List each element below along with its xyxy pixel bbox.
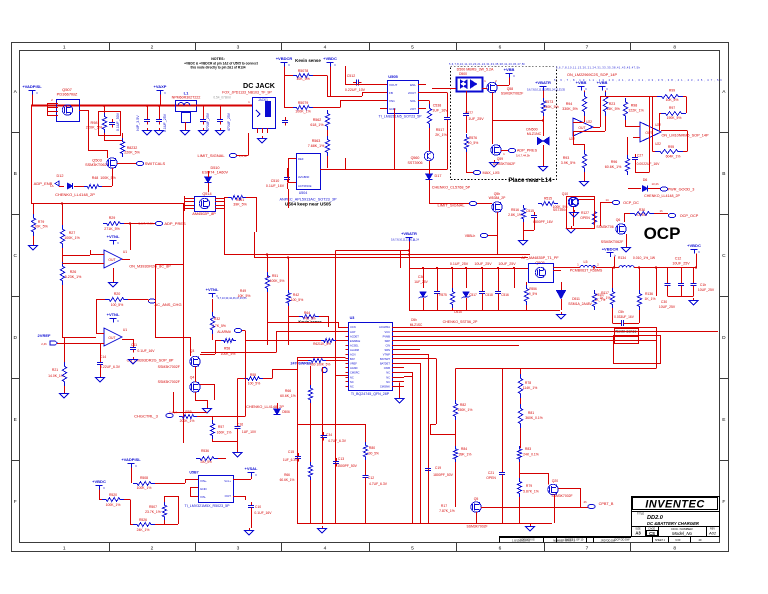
svg-text:1500PF_50V: 1500PF_50V — [337, 464, 358, 468]
svg-text:R127: R127 — [581, 211, 589, 215]
svg-text:7: 7 — [586, 44, 589, 50]
svg-text:ADP_ENB: ADP_ENB — [34, 181, 53, 186]
svg-text:Place near L14: Place near L14 — [508, 177, 552, 184]
svg-text:1,2,3h: 1,2,3h — [239, 154, 248, 158]
svg-text:4.7UF_6.3V: 4.7UF_6.3V — [369, 482, 388, 486]
svg-text:SST3906: SST3906 — [408, 161, 423, 165]
svg-text:R20: R20 — [114, 292, 121, 296]
svg-text:OCP_OCP: OCP_OCP — [680, 214, 699, 218]
svg-text:R32: R32 — [214, 317, 220, 321]
svg-text:R96: R96 — [611, 160, 618, 164]
svg-text:5.87K_1%: 5.87K_1% — [523, 490, 539, 494]
svg-text:OPEN: OPEN — [580, 216, 590, 220]
svg-text:604K_1%: 604K_1% — [666, 155, 681, 159]
svg-text:LIMIT_SIGNAL: LIMIT_SIGNAL — [197, 153, 225, 158]
svg-text:F: F — [14, 499, 17, 505]
svg-text:3.9K_5%: 3.9K_5% — [561, 161, 576, 165]
svg-text:ACN: ACN — [350, 353, 356, 357]
svg-text:this node directly to pin 2&1: this node directly to pin 2&1 of R134 — [190, 66, 245, 70]
svg-text:D500: D500 — [459, 72, 467, 76]
svg-text:0.1UF_16V: 0.1UF_16V — [137, 349, 155, 353]
svg-text:0.1UF_25V: 0.1UF_25V — [163, 113, 167, 132]
svg-text:5,6,7,8,10,11,13,20,21,24,31,3: 5,6,7,8,10,11,13,20,21,24,31,33,35,38,41… — [556, 66, 641, 70]
svg-text:NC_5%: NC_5% — [305, 317, 316, 321]
svg-text:W5384_2P: W5384_2P — [489, 196, 507, 200]
svg-text:BATDET: BATDET — [380, 362, 390, 366]
svg-text:100K_5%: 100K_5% — [270, 279, 285, 283]
svg-text:ADP_PRES: ADP_PRES — [517, 149, 538, 153]
svg-text:Q20: Q20 — [552, 479, 559, 483]
svg-text:470UF_25V: 470UF_25V — [206, 112, 210, 131]
svg-text:0.1UF_25V: 0.1UF_25V — [450, 262, 469, 266]
svg-text:2: 2 — [151, 545, 154, 551]
svg-text:OPEN: OPEN — [486, 476, 496, 480]
svg-text:160K_1%: 160K_1% — [217, 431, 232, 435]
svg-text:E: E — [722, 417, 725, 423]
svg-text:OUT: OUT — [645, 131, 652, 135]
svg-text:R29: R29 — [109, 216, 116, 220]
svg-text:10_5%: 10_5% — [468, 141, 479, 145]
svg-text:5,6,7,8,10,11,13,20,21,24: 5,6,7,8,10,11,13,20,21,24 — [391, 238, 420, 242]
svg-text:ENL: ENL — [410, 83, 416, 87]
svg-text:LIMIT_SIGNAL: LIMIT_SIGNAL — [437, 203, 465, 208]
svg-text:5,6,7,44,5h: 5,6,7,44,5h — [516, 154, 530, 158]
svg-text:NPM60R302T222: NPM60R302T222 — [172, 96, 201, 100]
svg-text:C27: C27 — [637, 154, 643, 158]
svg-text:1: 1 — [63, 545, 66, 551]
svg-text:SRN: SRN — [385, 348, 391, 352]
svg-text:CHENKO_LL4148_2P: CHENKO_LL4148_2P — [246, 405, 284, 409]
svg-text:220K_5%: 220K_5% — [124, 151, 140, 155]
svg-text:0.0022UF_16V: 0.0022UF_16V — [637, 162, 661, 166]
svg-text:+VADPISL: +VADPISL — [121, 457, 141, 462]
svg-text:2OT: 2OT — [410, 107, 416, 111]
svg-text:Q6: Q6 — [616, 218, 621, 222]
svg-text:+VBATR: +VBATR — [535, 80, 551, 85]
svg-text:60.6K_1%: 60.6K_1% — [605, 165, 622, 169]
svg-text:ACGPRA: ACGPRA — [379, 325, 390, 329]
svg-text:R576: R576 — [469, 136, 477, 140]
svg-text:MAX_LX5: MAX_LX5 — [482, 171, 499, 175]
svg-text:CS: CS — [649, 531, 655, 536]
svg-text:R79: R79 — [38, 220, 45, 224]
svg-text:U505: U505 — [388, 74, 398, 79]
svg-text:ACSEL: ACSEL — [350, 343, 359, 347]
svg-text:+VBDCR: +VBDCR — [276, 56, 293, 61]
svg-text:PVMB: PVMB — [383, 334, 391, 338]
svg-text:2,4h: 2,4h — [41, 342, 47, 346]
svg-text:CIN: CIN — [386, 343, 391, 347]
svg-text:R51: R51 — [272, 274, 278, 278]
svg-text:SSM3K7002F: SSM3K7002F — [158, 365, 181, 369]
svg-text:Q59: Q59 — [497, 157, 504, 161]
svg-text:R57: R57 — [218, 425, 224, 429]
svg-text:0.22UF_6.3V: 0.22UF_6.3V — [100, 365, 121, 369]
svg-text:DC &BATTERY CHARGER: DC &BATTERY CHARGER — [647, 521, 699, 526]
svg-text:R99: R99 — [669, 89, 675, 93]
svg-text:PWR_GOOD_3: PWR_GOOD_3 — [668, 188, 695, 192]
svg-text:24K_1%: 24K_1% — [137, 528, 150, 532]
svg-text:INVENTEC: INVENTEC — [645, 499, 705, 511]
svg-text:D: D — [722, 335, 726, 341]
svg-text:SSM3KT062F: SSM3KT062F — [601, 240, 624, 244]
svg-text:NOTES:: NOTES: — [211, 57, 225, 61]
svg-text:+VADPISL: +VADPISL — [22, 84, 42, 89]
svg-text:VCC: VCC — [385, 330, 391, 334]
svg-text:+VTNL: +VTNL — [206, 287, 219, 292]
svg-text:U1: U1 — [123, 250, 127, 254]
svg-text:U504 keep near U505: U504 keep near U505 — [285, 202, 331, 207]
svg-text:1K_1%: 1K_1% — [645, 297, 656, 301]
svg-text:R17: R17 — [441, 504, 447, 508]
svg-text:OCP_DC: OCP_DC — [623, 201, 639, 205]
svg-text:100K_5%: 100K_5% — [221, 352, 236, 356]
svg-text:5: 5 — [411, 545, 414, 551]
svg-text:ACP: ACP — [350, 330, 356, 334]
svg-text:VTMP: VTMP — [383, 353, 390, 357]
svg-text:190K_5%: 190K_5% — [667, 116, 682, 120]
svg-text:2VREF: 2VREF — [38, 333, 51, 338]
svg-text:TI_BQ24745_QFN_28P: TI_BQ24745_QFN_28P — [351, 392, 390, 396]
svg-text:CHENKO_LL4148_2P: CHENKO_LL4148_2P — [644, 194, 680, 198]
svg-text:470UF_25V: 470UF_25V — [227, 112, 231, 131]
svg-text:R134: R134 — [618, 256, 626, 260]
svg-text:Q58: Q58 — [507, 87, 514, 91]
svg-text:MLZ1SC: MLZ1SC — [410, 323, 423, 327]
svg-text:14.0K_1%: 14.0K_1% — [48, 374, 64, 378]
svg-text:0.22UF_10V: 0.22UF_10V — [345, 88, 366, 92]
svg-text:100_5%: 100_5% — [248, 382, 260, 386]
svg-text:4: 4 — [324, 44, 327, 50]
svg-text:F: F — [722, 499, 725, 505]
svg-text:200K_1%: 200K_1% — [180, 419, 195, 423]
svg-text:100K_1%: 100K_1% — [137, 486, 152, 490]
svg-text:R30: R30 — [639, 208, 645, 212]
svg-text:AP_AM4835P_T1_PF: AP_AM4835P_T1_PF — [521, 256, 559, 260]
svg-text:GND: GND — [389, 107, 397, 111]
svg-text:D506: D506 — [282, 410, 290, 414]
svg-text:Q5: Q5 — [474, 497, 479, 501]
svg-text:24K_0.1%: 24K_0.1% — [523, 453, 539, 457]
svg-text:39K_1%: 39K_1% — [459, 453, 472, 457]
svg-text:GND: GND — [200, 487, 208, 491]
svg-text:NC: NC — [386, 371, 390, 375]
svg-text:OUT: OUT — [578, 126, 585, 130]
svg-text:R563: R563 — [312, 139, 321, 143]
svg-text:L5: L5 — [584, 260, 588, 264]
svg-text:C: C — [13, 253, 17, 259]
svg-text:CHENKO_CL5768_5P: CHENKO_CL5768_5P — [432, 186, 471, 190]
svg-text:4D: 4D — [698, 539, 701, 542]
svg-text:R58: R58 — [224, 347, 230, 351]
svg-text:JRD*DD.DW: JRD*DD.DW — [601, 538, 616, 542]
svg-text:271K_5%: 271K_5% — [104, 227, 120, 231]
svg-text:8: 8 — [673, 545, 676, 551]
svg-text:ON_LM22969C2S_SOP_14P: ON_LM22969C2S_SOP_14P — [567, 73, 617, 77]
svg-text:+VBATR: +VBATR — [401, 231, 417, 236]
svg-text:100_5%: 100_5% — [367, 452, 379, 456]
svg-text:C12: C12 — [675, 257, 682, 261]
svg-text:C: C — [722, 253, 726, 259]
svg-text:14: 14 — [605, 198, 609, 202]
svg-text:U22: U22 — [655, 123, 661, 127]
svg-text:D500 MBRS_3W_5.2A: D500 MBRS_3W_5.2A — [457, 68, 494, 72]
svg-text:E: E — [14, 417, 17, 423]
svg-text:D17: D17 — [435, 174, 442, 178]
svg-text:618_1%: 618_1% — [310, 123, 324, 127]
svg-text:5,6,7,8,10,11,13,20,21,24,31,3: 5,6,7,8,10,11,13,20,21,24,31,33,35 — [527, 88, 566, 92]
svg-text:R23: R23 — [609, 102, 616, 106]
svg-text:DN500: DN500 — [526, 128, 537, 132]
svg-text:R49: R49 — [240, 289, 246, 293]
svg-text:U22: U22 — [569, 137, 575, 141]
svg-text:R507: R507 — [149, 505, 157, 509]
svg-text:3: 3 — [237, 545, 240, 551]
svg-text:2: 2 — [151, 44, 154, 50]
svg-text:6: 6 — [499, 545, 502, 551]
svg-text:Q10: Q10 — [562, 192, 569, 196]
svg-text:SSM3KT062F: SSM3KT062F — [501, 92, 524, 96]
svg-text:1UF_25V: 1UF_25V — [468, 117, 484, 121]
svg-text:C30: C30 — [661, 300, 667, 304]
svg-text:23.7K_1%: 23.7K_1% — [145, 510, 161, 514]
svg-text:CPBT_B: CPBT_B — [599, 502, 614, 506]
svg-text:R516: R516 — [511, 208, 519, 212]
svg-text:1UF_6.3V: 1UF_6.3V — [283, 458, 298, 462]
svg-text:2.8K_1%: 2.8K_1% — [508, 213, 522, 217]
svg-text:R98: R98 — [631, 104, 638, 108]
svg-text:ADP_PRES: ADP_PRES — [164, 221, 186, 226]
svg-text:+VAXP: +VAXP — [154, 84, 167, 89]
svg-text:PCMB063T_R56MS: PCMB063T_R56MS — [570, 269, 603, 273]
svg-text:R515: R515 — [544, 197, 552, 201]
svg-text:330K_5%: 330K_5% — [562, 107, 578, 111]
svg-text:REF: REF — [298, 157, 304, 161]
svg-text:CMSRC: CMSRC — [350, 371, 360, 375]
svg-text:R536: R536 — [201, 449, 209, 453]
svg-text:C11: C11 — [131, 343, 137, 347]
svg-text:R21: R21 — [52, 368, 58, 372]
svg-text:R5078: R5078 — [298, 69, 309, 73]
svg-text:0.033UF_16V: 0.033UF_16V — [614, 315, 635, 319]
svg-text:+VBB: +VBB — [576, 80, 587, 85]
svg-text:ON_LM10NRM5_SOP_14P: ON_LM10NRM5_SOP_14P — [661, 134, 709, 138]
svg-text:R27: R27 — [69, 231, 76, 235]
svg-text:R562: R562 — [313, 118, 322, 122]
svg-text:1UF_25V: 1UF_25V — [414, 280, 428, 284]
svg-text:C1h: C1h — [700, 283, 706, 287]
svg-text:VN1: VN1 — [389, 99, 395, 103]
svg-text:CHGCTRL_3: CHGCTRL_3 — [134, 414, 159, 419]
svg-text:FB: FB — [389, 91, 393, 95]
svg-text:U22: U22 — [586, 120, 592, 124]
svg-text:C518: C518 — [485, 293, 493, 297]
svg-text:NC: NC — [350, 384, 354, 388]
svg-text:ALARM#: ALARM# — [217, 330, 231, 334]
svg-text:C36: C36 — [418, 275, 424, 279]
svg-text:R6211K_5%: R6211K_5% — [313, 342, 331, 346]
svg-text:C10: C10 — [255, 505, 261, 509]
svg-text:+VBDC: +VBDC — [687, 243, 701, 248]
svg-text:0.54_078mil: 0.54_078mil — [213, 96, 231, 100]
svg-text:10UF_25V: 10UF_25V — [498, 262, 516, 266]
svg-text:TI_LMV321M5X_R5023_5P: TI_LMV321M5X_R5023_5P — [185, 504, 231, 508]
svg-text:PD3667IBZ: PD3667IBZ — [57, 92, 78, 97]
svg-text:C516: C516 — [501, 293, 509, 297]
svg-text:0.1UF_16V: 0.1UF_16V — [254, 511, 272, 515]
svg-text:U22: U22 — [655, 142, 661, 146]
svg-text:3: 3 — [237, 44, 240, 50]
svg-text:R79: R79 — [526, 484, 532, 488]
svg-text:0_5%: 0_5% — [529, 292, 537, 296]
svg-text:NC: NC — [386, 380, 390, 384]
svg-text:CHENKO_SST56_2P: CHENKO_SST56_2P — [443, 320, 478, 324]
svg-text:+VBDC: +VBDC — [323, 56, 337, 61]
svg-text:100K_1%: 100K_1% — [64, 236, 80, 240]
svg-text:D12: D12 — [57, 174, 64, 178]
svg-text:4: 4 — [324, 545, 327, 551]
svg-text:1UF_16V: 1UF_16V — [432, 109, 448, 113]
svg-text:2470SWREF: 2470SWREF — [291, 362, 313, 366]
svg-text:R81: R81 — [528, 411, 534, 415]
svg-text:7: 7 — [586, 545, 589, 551]
svg-text:100_5%: 100_5% — [111, 303, 123, 307]
svg-text:R526: R526 — [139, 518, 147, 522]
svg-text:C510: C510 — [271, 179, 280, 183]
svg-text:1: 1 — [63, 44, 66, 50]
svg-text:AVGBNF: AVGBNF — [298, 175, 310, 179]
svg-text:C538: C538 — [433, 104, 442, 108]
svg-text:ALARM: ALARM — [350, 348, 359, 352]
svg-text:VOUT: VOUT — [389, 83, 398, 87]
svg-text:7.68K_1%: 7.68K_1% — [308, 144, 325, 148]
svg-text:R5079: R5079 — [298, 101, 309, 105]
svg-text:13,4h: 13,4h — [652, 182, 659, 186]
svg-text:0.1UF_16V: 0.1UF_16V — [266, 184, 285, 188]
svg-text:U5B7: U5B7 — [189, 471, 198, 475]
svg-text:5: 5 — [411, 44, 414, 50]
svg-text:R136: R136 — [645, 292, 653, 296]
svg-text:SOL: SOL — [410, 99, 416, 103]
svg-text:TITLE: TITLE — [637, 512, 644, 516]
svg-text:CINB: CINB — [384, 366, 390, 370]
svg-text:100K_5%: 100K_5% — [553, 205, 568, 209]
svg-text:OUT: OUT — [108, 336, 115, 340]
svg-text:A02: A02 — [708, 531, 717, 536]
svg-text:10UF_25V: 10UF_25V — [672, 262, 690, 266]
svg-text:8: 8 — [673, 44, 676, 50]
svg-text:NC: NC — [350, 380, 354, 384]
svg-text:D511: D511 — [572, 297, 580, 301]
svg-text:10UF_25V: 10UF_25V — [474, 262, 492, 266]
svg-text:R98: R98 — [91, 121, 98, 125]
svg-text:114K_1%: 114K_1% — [523, 386, 537, 390]
svg-text:+VBDCR: +VBDCR — [602, 247, 619, 252]
svg-text:DCP DD.DW: DCP DD.DW — [615, 538, 630, 542]
svg-text:6800PF_16V: 6800PF_16V — [533, 220, 554, 224]
svg-text:D510: D510 — [210, 166, 219, 170]
svg-text:6: 6 — [499, 44, 502, 50]
svg-text:CMSINK: CMSINK — [380, 384, 390, 388]
svg-text:R48: R48 — [92, 176, 99, 180]
svg-text:CHENKO_LL4148_2P: CHENKO_LL4148_2P — [55, 192, 95, 197]
svg-text:UCN: UCN — [350, 325, 356, 329]
svg-text:+VSAL: +VSAL — [244, 466, 258, 471]
svg-text:0.1UF_50V: 0.1UF_50V — [116, 112, 120, 131]
svg-text:360K_0.1%: 360K_0.1% — [525, 416, 543, 420]
svg-text:R93: R93 — [563, 156, 570, 160]
svg-text:SSM3KT062F: SSM3KT062F — [85, 163, 110, 167]
svg-text:BAT: BAT — [350, 357, 355, 361]
svg-text:MLZ1NC: MLZ1NC — [527, 132, 542, 136]
svg-text:VREF: VREF — [350, 362, 357, 366]
svg-text:AGND: AGND — [350, 366, 358, 370]
svg-text:R517: R517 — [436, 128, 445, 132]
svg-text:Q503: Q503 — [92, 158, 103, 163]
svg-text:Q514: Q514 — [202, 192, 211, 196]
svg-text:5,6,7,8,10,11,13,20,21,24,31,3: 5,6,7,8,10,11,13,20,21,24,31,33,35,38,41… — [449, 62, 526, 66]
svg-text:OCP: OCP — [644, 224, 681, 243]
svg-text:+VBB: +VBB — [597, 80, 608, 85]
svg-text:R84: R84 — [461, 447, 467, 451]
svg-text:SSM3K7002F: SSM3K7002F — [466, 525, 487, 529]
svg-text:R59: R59 — [185, 410, 191, 414]
svg-text:Q4: Q4 — [190, 376, 195, 380]
svg-text:10K_5%: 10K_5% — [296, 77, 310, 81]
svg-text:OUT: OUT — [108, 258, 115, 262]
svg-text:C517: C517 — [469, 293, 477, 297]
svg-text:D: D — [13, 335, 17, 341]
svg-text:R556: R556 — [529, 287, 537, 291]
svg-text:NC: NC — [350, 375, 354, 379]
svg-text:U1: U1 — [123, 328, 127, 332]
svg-text:60.6K_1%: 60.6K_1% — [280, 478, 295, 482]
svg-text:5.23K_1%: 5.23K_1% — [65, 275, 82, 279]
svg-text:ACTRNCE: ACTRNCE — [298, 184, 312, 188]
svg-text:NIP_3.5V: NIP_3.5V — [136, 115, 140, 131]
svg-text:R64: R64 — [304, 311, 310, 315]
svg-text:U3: U3 — [350, 316, 355, 320]
svg-text:R508: R508 — [140, 476, 148, 480]
svg-text:R575: R575 — [439, 293, 447, 297]
svg-text:SRP: SRP — [385, 339, 391, 343]
svg-text:5,7,10,33,44,46,47,45,5h: 5,7,10,33,44,46,47,45,5h — [218, 296, 247, 300]
svg-text:U504: U504 — [299, 191, 308, 195]
svg-text:5,44,7: 5,44,7 — [169, 411, 177, 415]
svg-text:C15: C15 — [288, 450, 294, 454]
svg-text:Vcc+: Vcc+ — [224, 479, 231, 483]
svg-text:R97: R97 — [669, 106, 675, 110]
svg-text:D6: D6 — [643, 178, 648, 182]
svg-text:AM4502P_8P: AM4502P_8P — [192, 212, 216, 216]
svg-text:ENABLE: ENABLE — [350, 339, 361, 343]
svg-text:B: B — [14, 171, 17, 177]
svg-text:1UF_10V: 1UF_10V — [242, 430, 257, 434]
svg-text:R80: R80 — [369, 446, 375, 450]
svg-text:SSM1A_2A48V: SSM1A_2A48V — [568, 302, 592, 306]
svg-text:R82: R82 — [460, 403, 466, 407]
svg-text:1 8/13/2015 N1: 1 8/13/2015 N1 — [512, 538, 530, 542]
svg-text:R26: R26 — [70, 270, 77, 274]
svg-text:R520: R520 — [109, 493, 117, 497]
svg-text:R78: R78 — [525, 381, 531, 385]
svg-text:10UF_25V: 10UF_25V — [659, 305, 676, 309]
svg-text:0.010_1%_1W: 0.010_1%_1W — [633, 256, 656, 260]
svg-text:R83: R83 — [525, 447, 531, 451]
svg-text:2K_1%: 2K_1% — [435, 133, 447, 137]
svg-text:BATSRT: BATSRT — [380, 357, 390, 361]
svg-text:C12: C12 — [368, 476, 374, 480]
